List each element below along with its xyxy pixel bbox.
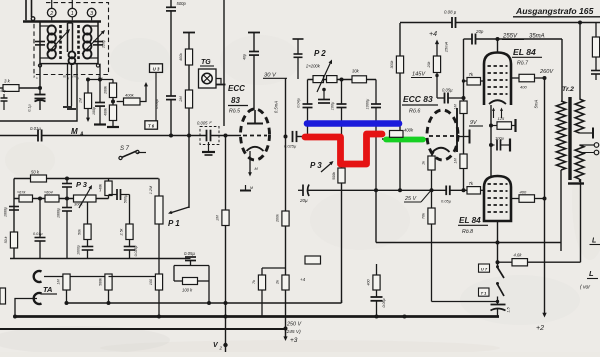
svg-text:100: 100 [149,278,153,285]
svg-text:P 3: P 3 [310,161,322,170]
svg-text:P 3: P 3 [76,180,88,189]
svg-text:0.025µ: 0.025µ [134,246,138,257]
svg-text:100 k: 100 k [182,288,193,293]
svg-text:Rö.7: Rö.7 [517,61,529,67]
svg-text:0.05µ: 0.05µ [184,251,195,256]
svg-text:P 1: P 1 [168,219,180,228]
svg-text:500k: 500k [332,172,336,180]
svg-text:5mA: 5mA [534,99,539,108]
svg-text:220p: 220p [102,40,106,49]
svg-text:50k: 50k [78,229,82,235]
svg-text:3 k: 3 k [4,79,11,84]
svg-text:0.01µ: 0.01µ [33,232,43,236]
svg-text:250 V: 250 V [286,322,302,328]
svg-text:500k: 500k [99,278,103,286]
svg-text:400k: 400k [125,93,135,98]
svg-text:60µ: 60µ [1,89,7,93]
svg-text:TG: TG [201,59,211,66]
svg-text:U 7: U 7 [481,266,488,271]
svg-text:0.05µ: 0.05µ [441,199,452,204]
svg-text:+3: +3 [290,337,298,344]
svg-text:125: 125 [498,116,505,121]
svg-text:100µ: 100µ [331,101,335,110]
svg-text:0.1µ: 0.1µ [28,103,32,111]
svg-text:30k: 30k [352,69,360,74]
svg-text:0.05µ: 0.05µ [382,298,386,307]
svg-text:260V: 260V [539,69,554,75]
svg-text:≈67k: ≈67k [17,190,26,195]
svg-text:0.5mA: 0.5mA [274,101,279,113]
svg-text:1000p: 1000p [77,245,81,255]
svg-text:L: L [592,238,596,245]
svg-text:M: M [250,186,253,190]
svg-text:0.025µ: 0.025µ [284,144,297,149]
svg-text:20k: 20k [427,61,431,68]
svg-text:+2: +2 [536,325,544,332]
svg-text:100p: 100p [92,107,96,115]
svg-text:ECC 83: ECC 83 [403,94,433,104]
svg-text:1000p: 1000p [4,207,8,217]
svg-text:Rö.5: Rö.5 [229,109,240,115]
svg-text:1M: 1M [57,279,61,285]
svg-text:0.04µ: 0.04µ [297,97,301,107]
svg-text:≈40k: ≈40k [99,184,103,192]
svg-text:1,5: 1,5 [507,306,511,312]
svg-text:50 k: 50 k [4,236,8,243]
svg-text:1.2M: 1.2M [149,185,153,194]
svg-text:400k: 400k [179,53,183,61]
svg-text:P 2: P 2 [314,49,326,58]
svg-text:1000p: 1000p [57,208,61,218]
svg-text:2×200k: 2×200k [305,64,321,69]
svg-text:T 1: T 1 [481,290,488,295]
svg-text:40p: 40p [243,54,247,60]
svg-text:25 V: 25 V [404,196,417,202]
svg-text:M: M [71,127,78,136]
svg-text:0.01µ: 0.01µ [30,126,41,131]
svg-text:T 6: T 6 [148,123,155,128]
svg-text:0.05µ: 0.05µ [442,88,453,93]
svg-text:30 V: 30 V [264,73,277,79]
svg-text:15mA: 15mA [444,41,449,52]
svg-text:2M: 2M [179,96,183,103]
svg-text:2: 2 [49,11,53,17]
svg-text:TA: TA [43,285,52,294]
svg-text:1: 1 [71,11,74,17]
svg-text:4.6k: 4.6k [514,253,523,258]
svg-text:1M: 1M [79,97,83,103]
svg-text:20p: 20p [475,29,484,34]
svg-text:L: L [589,269,594,278]
svg-text:EL 84: EL 84 [459,216,481,225]
svg-text:1000µ: 1000µ [366,98,370,109]
svg-text:0.005: 0.005 [197,121,208,126]
svg-text:500µ: 500µ [124,194,128,203]
svg-text:400: 400 [520,85,527,90]
svg-text:20µ: 20µ [299,198,308,203]
svg-text:+4: +4 [300,277,306,282]
svg-text:50 k: 50 k [31,170,40,175]
svg-text:400: 400 [367,278,371,285]
svg-text:300k: 300k [390,60,394,68]
svg-text:1M: 1M [454,104,458,110]
svg-text:( vor: ( vor [580,285,590,291]
svg-text:1M: 1M [454,158,458,164]
svg-text:A: A [79,132,84,138]
svg-text:83: 83 [231,96,240,105]
svg-text:145V: 145V [412,72,426,78]
svg-text:Tr.2: Tr.2 [562,86,574,93]
svg-text:U 3: U 3 [153,67,160,72]
svg-text:+4: +4 [429,31,437,38]
svg-text:400k: 400k [104,108,108,116]
svg-text:µ: µ [210,120,212,124]
svg-text:Rö.6: Rö.6 [409,109,420,115]
svg-text:400: 400 [520,190,527,195]
svg-text:Ausgangstrafo 165: Ausgangstrafo 165 [515,6,594,16]
svg-text:EL 84: EL 84 [513,47,536,57]
svg-text:400k: 400k [404,128,414,133]
svg-text:S 7: S 7 [120,146,130,152]
svg-text:≈604: ≈604 [44,190,53,195]
svg-text:ECC: ECC [228,84,245,93]
svg-text:2M: 2M [216,215,220,222]
svg-text:0.08 µ: 0.08 µ [444,10,457,15]
svg-text:500p: 500p [177,1,187,6]
svg-text:Rö.8: Rö.8 [462,229,473,235]
svg-text:2: 2 [219,346,223,351]
svg-text:200k: 200k [276,214,280,223]
svg-text:3: 3 [90,11,93,17]
svg-text:200k: 200k [104,86,108,95]
svg-text:2.5k: 2.5k [120,228,124,236]
svg-text:(245 V): (245 V) [285,329,301,335]
